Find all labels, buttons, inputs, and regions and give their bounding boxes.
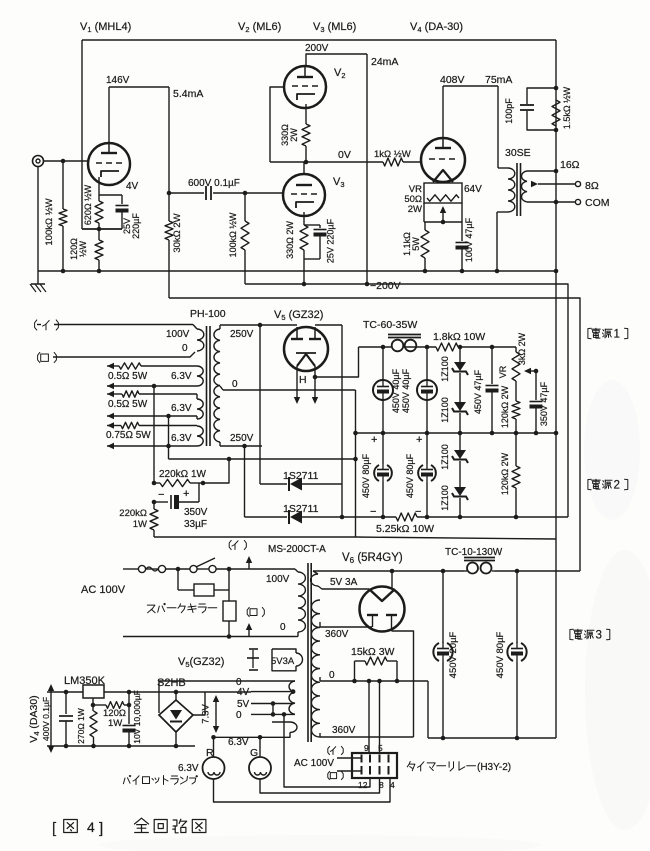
node spark killer top — [176, 567, 181, 572]
wire supply2 bottom rail — [417, 516, 568, 518]
node 33µF left — [152, 500, 157, 505]
svg-text:220kΩ: 220kΩ — [119, 508, 147, 519]
label 64V — [464, 184, 482, 195]
label 1Z100 no.1 — [440, 356, 450, 382]
capacitor 100pF NFB — [520, 88, 556, 130]
winding MS secondary HV — [311, 600, 320, 737]
svg-text:100V: 100V — [166, 329, 190, 340]
svg-text:408V: 408V — [440, 74, 465, 86]
wire V5 plate B — [315, 324, 342, 326]
capacitor 350V 47µF bias tap — [530, 371, 543, 433]
wire C rail to supply 3 — [169, 298, 580, 571]
label 7.3V — [201, 704, 212, 724]
resistor 120Ω 1W adj — [93, 702, 129, 709]
node -200V right end — [554, 269, 559, 274]
label plus cap3 — [371, 434, 377, 446]
wire 360V top tap — [320, 622, 372, 627]
svg-text:100kΩ ½W: 100kΩ ½W — [228, 212, 238, 257]
wire V6 filament top lead — [391, 571, 393, 589]
node rail2 zener — [458, 515, 463, 520]
label 100pF — [504, 98, 514, 124]
svg-text:2W: 2W — [408, 204, 422, 215]
svg-text:G: G — [250, 747, 258, 759]
svg-text:200V: 200V — [305, 43, 329, 54]
wire NFB drop to V1 cathode — [82, 40, 122, 229]
svg-text:360V: 360V — [325, 629, 349, 640]
regulator LM350K box — [83, 685, 104, 698]
node V3 grid resistor tap — [243, 191, 248, 196]
svg-text:V4 (DA30): V4 (DA30) — [28, 695, 41, 742]
wire relay feed drop — [284, 714, 370, 787]
label (ロ) relay — [328, 771, 343, 779]
wire ロ arrow up — [246, 623, 252, 637]
wire V6 plate right to bottom tap — [392, 631, 414, 737]
wire bias bottom rail — [154, 536, 356, 538]
label V3 tube — [333, 176, 345, 189]
svg-text:360V: 360V — [332, 725, 356, 736]
svg-text:0: 0 — [329, 670, 335, 681]
svg-text:1W: 1W — [108, 718, 122, 729]
diode 1Z100 no.4 — [452, 487, 468, 517]
transformer MS-200CT-A core — [308, 563, 311, 742]
wire tap 4V — [251, 689, 295, 694]
node 1.1k ground — [423, 269, 428, 274]
node wiper junction — [441, 220, 446, 225]
svg-text:3: 3 — [596, 628, 602, 641]
svg-text:3kΩ 2W: 3kΩ 2W — [517, 332, 527, 365]
wire to rectifier diode 1 — [259, 325, 261, 484]
svg-text:350V: 350V — [184, 507, 208, 518]
wire 4V feed — [205, 691, 251, 693]
winding MS 5V3A right — [311, 571, 369, 589]
node V3 cathode return — [302, 282, 307, 287]
capacitor 100V 47µF bias bypass — [456, 222, 469, 271]
winding MS 6.3V pilot — [251, 722, 297, 737]
label パイロットランプ — [123, 775, 197, 784]
svg-text:TC-60-35W: TC-60-35W — [363, 319, 417, 331]
label 146V — [106, 75, 130, 86]
svg-text:220µF: 220µF — [131, 213, 141, 239]
svg-text:0: 0 — [236, 710, 242, 721]
fuse terminal 2 — [158, 565, 165, 572]
svg-text:10V 10,000µF: 10V 10,000µF — [132, 690, 142, 744]
svg-text:450V 40µF: 450V 40µF — [401, 368, 411, 413]
svg-text:1.8kΩ 10W: 1.8kΩ 10W — [433, 331, 485, 343]
label 400V 0.1µF — [41, 697, 51, 741]
wire ロ line — [53, 352, 195, 357]
svg-text:5V: 5V — [237, 699, 250, 710]
label 1Z100 no.4 — [440, 485, 450, 511]
label (イ) at AC — [229, 540, 246, 549]
label 0V — [338, 149, 351, 161]
wire bridge AC left — [159, 681, 251, 713]
node cap2 top — [425, 345, 430, 350]
svg-text:450V 80µF: 450V 80µF — [405, 453, 415, 498]
wire jack sleeve down — [37, 167, 39, 271]
winding PH-100 secondary HV — [214, 329, 220, 442]
label 0.5Ω 5W no.2 — [108, 399, 148, 410]
svg-text:R: R — [206, 747, 214, 759]
label tap 5V — [237, 699, 250, 710]
wire cathode to choke — [315, 347, 359, 377]
label 16Ω — [560, 159, 580, 171]
svg-text:2W: 2W — [289, 128, 299, 142]
resistor 0.5Ω 5W heater no.1 — [107, 363, 197, 369]
label 250V top — [230, 329, 254, 340]
wire supply3 bottom rail — [428, 737, 556, 739]
label 0 primary MS — [280, 622, 286, 633]
wire supply3 B+ line — [313, 570, 580, 572]
label 5.25kΩ 10W — [376, 523, 434, 535]
svg-text:450V 40µF: 450V 40µF — [391, 368, 401, 413]
svg-text:[: [ — [52, 820, 57, 837]
label 5V 3A right — [330, 577, 358, 588]
node rail2 120k — [514, 515, 519, 520]
resistor 220kΩ 1W bias vertical — [150, 502, 158, 537]
label 100V primary MS — [266, 574, 290, 585]
svg-text:AC 100V: AC 100V — [294, 758, 334, 769]
capacitor 450V 20µF — [433, 571, 452, 738]
svg-text:0: 0 — [280, 622, 286, 633]
label 6.3V lamp — [178, 763, 199, 774]
winding PH-100 6.3V no.2 — [197, 399, 203, 419]
choke TC-10-130W — [464, 558, 495, 574]
wire AC neutral line — [123, 636, 295, 638]
label 350V 33µF — [184, 507, 208, 530]
label 1.1kΩ 5W — [402, 232, 421, 256]
node rail1 350V47 — [534, 431, 539, 436]
node coupling tap — [167, 191, 172, 196]
node cathode junction — [97, 227, 102, 232]
diode 1S2711 no.1 — [260, 477, 342, 491]
tube V4 DA-30 — [421, 138, 465, 182]
svg-text:V3: V3 — [333, 176, 345, 189]
node COM junction — [554, 200, 559, 205]
label tap 4V — [237, 687, 250, 698]
relay pins — [362, 755, 389, 775]
svg-text:9: 9 — [364, 743, 369, 753]
svg-text:1Z100: 1Z100 — [440, 356, 450, 382]
svg-text:250V: 250V — [230, 433, 254, 444]
wire top feedback rail — [82, 39, 556, 41]
label minus cap4 — [415, 506, 421, 518]
wire bridge minus — [174, 732, 179, 748]
label 30kΩ 2W — [172, 213, 183, 252]
svg-text:4: 4 — [390, 780, 395, 790]
node zener top — [458, 345, 463, 350]
label 1.8kΩ 10W — [433, 331, 485, 343]
resistor 330Ω 2W V2 cathode — [302, 104, 310, 162]
node reg top cap — [64, 690, 69, 695]
resistor 0.75Ω 5W heater no.3 — [107, 422, 197, 428]
ground symbol — [30, 271, 46, 292]
winding MS filament taps — [251, 681, 295, 714]
label 450V 47µF screen — [473, 369, 483, 414]
svg-text:8Ω: 8Ω — [585, 180, 599, 192]
paper tone right margin — [100, 380, 650, 851]
svg-text:V2 (ML6): V2 (ML6) — [238, 21, 281, 34]
caption 図4 全回路図 — [52, 818, 206, 837]
node CT rail1 — [353, 431, 358, 436]
label 100kΩ 1/2W V3 — [228, 212, 238, 257]
node 80µF top — [515, 569, 520, 574]
capacitor 450V 80µF supply3 — [507, 571, 526, 738]
resistor 120kΩ 2W lower — [512, 433, 520, 517]
node rail3 20µF — [441, 736, 446, 741]
resistor 5.25kΩ 10W — [396, 513, 417, 521]
wire to rectifier diode 2 — [244, 446, 246, 517]
label 6.3V no.3 — [171, 433, 192, 444]
label 10V 10000µF — [132, 690, 142, 744]
label 24mA — [371, 56, 398, 68]
node NFB top — [554, 86, 559, 91]
node cap1 top — [381, 345, 386, 350]
svg-text:100pF: 100pF — [504, 98, 514, 124]
label 1Z100 no.2 — [440, 397, 450, 423]
svg-text:24mA: 24mA — [371, 56, 398, 68]
measure 7.3V — [213, 695, 219, 733]
label 15kΩ 3W — [351, 646, 395, 658]
wire イ arrow up — [246, 556, 252, 569]
winding MS primary 100V — [295, 569, 305, 637]
choke TC-60-35W — [388, 335, 421, 352]
resistor 1kΩ 1/2W V4 grid stopper — [383, 158, 403, 166]
svg-text:2: 2 — [614, 478, 620, 491]
label 120kΩ 2W lower — [500, 452, 510, 495]
node G lamp tap — [258, 735, 263, 740]
label V4 (DA30) — [28, 695, 41, 742]
label スパークキラー — [147, 603, 217, 612]
wire B rail to supply 2 — [245, 284, 568, 517]
node rail1 120k — [514, 431, 519, 436]
svg-text:100V 47µF: 100V 47µF — [464, 217, 474, 262]
wire R lamp return — [214, 778, 391, 802]
label 360V bottom — [332, 725, 356, 736]
label 450V 80µF no.2 — [405, 453, 415, 498]
wire branch to bias node R — [203, 459, 229, 483]
resistor 270Ω 1W adj — [90, 705, 97, 746]
wire 408V line — [443, 85, 498, 87]
wire 250V top tap — [220, 325, 297, 329]
wire supply1 top line — [359, 346, 517, 348]
wire bridge plus — [174, 690, 179, 700]
label PH-100 — [190, 308, 226, 320]
wire 0V line — [270, 161, 421, 163]
svg-text:350V 47µF: 350V 47µF — [539, 381, 549, 426]
node heater CT no.1 — [152, 384, 157, 389]
node heater tap no.2 — [166, 414, 171, 419]
lamp G pilot — [249, 737, 271, 779]
svg-text:VR: VR — [498, 365, 508, 378]
label S2HB — [157, 677, 186, 689]
svg-text:MS-200CT-A: MS-200CT-A — [268, 544, 326, 555]
label 220kΩ 1W vertical — [119, 508, 147, 530]
label 120Ω 1/2W — [69, 238, 88, 260]
wire input to V1 grid — [44, 160, 88, 162]
resistor 1.8kΩ 10W — [436, 343, 458, 351]
label VR 50Ω 2W — [404, 184, 422, 215]
svg-text:25V 220µF: 25V 220µF — [326, 218, 336, 263]
wire DA30 filament arrows — [48, 684, 54, 753]
label 0.75Ω 5W — [106, 430, 151, 441]
node rail1 cap1 — [381, 431, 386, 436]
resistor 120Ω 1/2W — [95, 229, 103, 271]
svg-text:330Ω 2W: 330Ω 2W — [285, 221, 295, 259]
label V6 (5R4GY) — [342, 552, 403, 565]
resistor 1.5kΩ 1/2W NFB — [552, 100, 560, 126]
node bleeder right — [395, 679, 400, 684]
svg-text:450V 80µF: 450V 80µF — [495, 631, 506, 678]
potentiometer VR 3kΩ 2W — [512, 347, 520, 401]
label 450V 20µF — [448, 631, 459, 678]
svg-text:1: 1 — [614, 327, 620, 340]
label 5V3A left — [271, 656, 295, 667]
svg-text:1.5kΩ ½W: 1.5kΩ ½W — [562, 86, 572, 129]
label 450V 80µF no.1 — [361, 453, 371, 498]
wire cathode junction — [82, 228, 122, 230]
wire イ line — [54, 324, 193, 326]
wire heater tap drop B — [168, 416, 170, 459]
label 6.3V tap — [228, 737, 249, 748]
wire bridge AC right — [193, 692, 205, 715]
wire right NFB bus — [555, 40, 557, 738]
node rail1 47µF — [490, 431, 495, 436]
wire AC hot line — [123, 568, 295, 570]
node 16Ω junction — [554, 169, 559, 174]
label 408V — [440, 74, 465, 86]
wire 0 tap line — [320, 677, 428, 681]
resistor 100kΩ 1/2W V3 grid — [241, 193, 249, 284]
node bias line branch — [227, 457, 232, 462]
node rail2 plateB — [340, 515, 345, 520]
svg-text:V5(GZ32): V5(GZ32) — [178, 656, 224, 669]
wire regulator bottom rail — [47, 745, 195, 747]
terminal COM — [575, 199, 580, 204]
label 30SE — [505, 147, 531, 159]
label 0 secondary — [232, 379, 238, 390]
node rail1 right bus — [554, 431, 559, 436]
wire ground / -200V rail — [38, 270, 556, 272]
label 450V 40µF no.1 — [391, 368, 401, 413]
label 600V 0.1µF — [188, 178, 240, 189]
capacitor 10V 10000µF — [123, 705, 136, 746]
svg-text:8: 8 — [379, 780, 384, 790]
fuse element — [146, 567, 158, 571]
label V3 (ML6) — [313, 21, 356, 34]
label タイマーリレー (H3Y-2) — [407, 762, 511, 774]
label V5 (GZ32) — [274, 309, 323, 322]
label 4V — [126, 181, 139, 192]
node 270 bottom — [91, 744, 96, 749]
svg-text:V4 (DA-30): V4 (DA-30) — [410, 21, 463, 34]
svg-text:12: 12 — [358, 780, 368, 790]
node rail1 zener — [458, 431, 463, 436]
label TC-60-35W — [363, 319, 417, 331]
label V4 (DA-30) — [410, 21, 463, 34]
label 100kΩ 1/2W — [44, 198, 55, 245]
svg-text:33µF: 33µF — [184, 519, 207, 530]
wire V4 plate up — [442, 86, 444, 139]
svg-text:]: ] — [99, 820, 103, 837]
label minus cap3 — [370, 506, 376, 518]
label 450V 80µF supply3 — [495, 631, 506, 678]
node 47µF top — [490, 345, 495, 350]
wire 24mA feed — [365, 54, 370, 286]
svg-text:+: + — [371, 434, 377, 446]
node bias L — [152, 481, 157, 486]
svg-text:30kΩ 2W: 30kΩ 2W — [172, 213, 183, 252]
capacitor 450V 40µF no.1 — [373, 347, 393, 433]
svg-text:1kΩ ½W: 1kΩ ½W — [374, 149, 411, 160]
wire relay coil feed 5 — [377, 679, 382, 753]
node bottom tap junction — [242, 444, 247, 449]
label VR 3k — [498, 365, 508, 378]
svg-text:400V 0.1µF: 400V 0.1µF — [41, 697, 51, 741]
node 10000 bottom — [127, 744, 132, 749]
label 100V — [166, 329, 190, 340]
wire heater lead left arrow — [294, 366, 300, 404]
label 75mA — [485, 74, 512, 86]
label 270Ω 1W — [76, 708, 86, 744]
wire 8Ω tap — [531, 181, 575, 187]
label 450V 40µF no.2 — [401, 368, 411, 413]
connector symbol GZ32 heater — [247, 649, 259, 670]
svg-text:COM: COM — [585, 197, 610, 209]
potentiometer VR 50Ω 2W hum balance — [424, 183, 462, 203]
svg-text:450V 47µF: 450V 47µF — [473, 369, 483, 414]
svg-text:450V 20µF: 450V 20µF — [448, 631, 459, 678]
capacitor 600V 0.1µF coupling — [169, 186, 283, 200]
label 1S2711 no.1 — [283, 470, 319, 482]
resistor 1.1kΩ 5W bias — [421, 222, 429, 271]
label 330Ω 2W V3 — [285, 221, 295, 259]
svg-text:1W: 1W — [133, 519, 147, 530]
svg-text:V5 (GZ32): V5 (GZ32) — [274, 309, 323, 322]
svg-text:4: 4 — [87, 819, 95, 835]
svg-text:0.5Ω 5W: 0.5Ω 5W — [108, 371, 148, 382]
label 1kΩ 1/2W — [374, 149, 411, 160]
resistor 15kΩ 3W bleeder — [355, 657, 398, 681]
node rail2 cap3 — [381, 515, 386, 520]
capacitor 450V 40µF no.2 — [417, 347, 437, 433]
wire heater return no.1 — [107, 383, 197, 389]
label (イ) input A — [35, 320, 59, 330]
wire plate load drop — [168, 87, 170, 221]
pin label 5 — [378, 743, 383, 753]
label 620Ω 1/2W — [83, 184, 93, 225]
node NFB bottom — [554, 128, 559, 133]
label (イ) relay — [328, 746, 343, 754]
label TC-10-130W — [445, 547, 503, 558]
svg-text:120kΩ 2W: 120kΩ 2W — [500, 385, 510, 428]
winding PH-100 primary 100V — [193, 325, 204, 352]
svg-text:S2HB: S2HB — [157, 677, 186, 689]
svg-text:0.75Ω 5W: 0.75Ω 5W — [106, 430, 151, 441]
svg-text:+: + — [183, 488, 189, 500]
node V6 top — [390, 569, 395, 574]
node OPT primary ground — [495, 269, 500, 274]
rectifier S2HB bridge — [159, 700, 193, 732]
label 350V 47µF — [539, 381, 549, 426]
capacitor 450V 80µF no.1 — [374, 433, 392, 517]
wire 250V bottom tap — [220, 442, 262, 446]
resistor 620Ω 1/2W cathode — [95, 177, 103, 229]
resistor 330Ω 2W V3 cathode — [300, 212, 320, 259]
svg-text:1S2711: 1S2711 — [283, 503, 319, 515]
pin label 8 — [379, 780, 384, 790]
label 5.4mA — [173, 88, 203, 100]
switch contact 1 — [190, 565, 197, 572]
